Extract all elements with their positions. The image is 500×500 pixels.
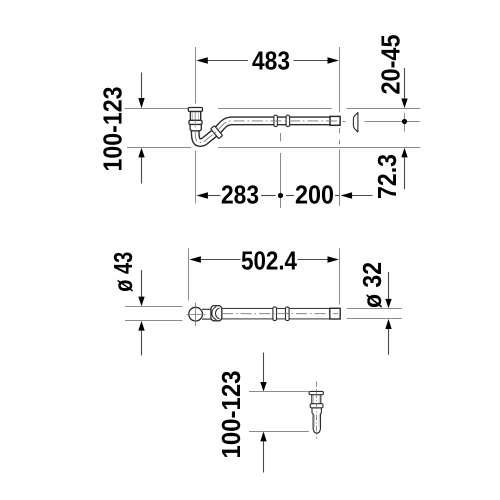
dim diameter 32 ticks — [347, 309, 402, 319]
trap pipe ring 1 — [274, 115, 278, 126]
label 20-45 — [376, 35, 406, 95]
svg-text:ø 43: ø 43 — [108, 252, 138, 292]
reference line top (wall level) — [218, 108, 332, 110]
reference line bottom — [218, 147, 421, 149]
wall flange (edge view) — [353, 113, 358, 132]
dim 100-123 (tailpiece) upper arrow — [260, 353, 266, 392]
label 72.3 — [372, 154, 402, 199]
dim 283/200 extension line middle — [280, 133, 282, 208]
dim 483 arrowhead left — [196, 57, 208, 63]
dim 200 outside arrow — [341, 192, 373, 198]
label 502.4 — [241, 245, 297, 275]
dim diameter 43 upper arrow — [138, 270, 144, 306]
dim diameter 43 lower arrow — [138, 321, 144, 355]
dim 483 arrowhead right — [328, 57, 340, 63]
dim 20-45 arrow — [401, 68, 407, 108]
ball neck — [202, 309, 213, 319]
dim 283/200 extension line right — [339, 140, 341, 206]
tailpiece flange — [309, 391, 323, 394]
dim diameter 32 upper arrow — [385, 272, 391, 308]
svg-text:ø 32: ø 32 — [357, 262, 387, 308]
dim 502.4 extension line left — [188, 248, 190, 300]
dim 283/200 junction dot — [278, 193, 283, 198]
svg-text:100-123: 100-123 — [216, 371, 246, 459]
tailpiece body — [312, 408, 321, 433]
dim 72.3 arrow — [401, 148, 407, 190]
trap inlet nut — [189, 120, 202, 124]
dim diameter 32 lower arrow — [385, 319, 391, 355]
tailpiece centerline — [316, 381, 318, 438]
dim 200 dimension line — [286, 195, 339, 197]
dim 100-123 (tailpiece) lower arrow — [260, 432, 266, 473]
pipe end sleeve — [330, 308, 340, 319]
ball joint — [189, 307, 203, 321]
trap union nut (diagonal) — [211, 126, 223, 139]
dim 502.4 dimension line — [201, 259, 329, 261]
pipe tube centerline — [222, 313, 338, 315]
trap inlet neck — [190, 112, 200, 121]
dim 502.4 arrowhead left — [189, 256, 201, 262]
svg-text:502.4: 502.4 — [241, 245, 297, 275]
svg-text:200: 200 — [295, 179, 334, 209]
trap inlet sleeve — [190, 125, 201, 131]
dim diameter 43 ticks — [125, 307, 183, 321]
dim 20-45 tick — [347, 108, 421, 110]
dim 502.4 arrowhead right — [328, 256, 340, 262]
dim 100-123 (tailpiece) ticks — [249, 392, 309, 432]
pipe tube ring 1 — [273, 307, 277, 321]
dim 502.4 extension line right — [339, 248, 341, 304]
label 483 — [252, 45, 290, 75]
tailpiece neck — [312, 395, 321, 404]
label diameter 32 — [357, 262, 387, 308]
outlet centerline stub — [343, 121, 346, 123]
svg-text:283: 283 — [221, 179, 259, 209]
svg-text:72.3: 72.3 — [372, 154, 402, 199]
svg-text:100-123: 100-123 — [97, 87, 127, 172]
trap pipe ring 2 — [286, 115, 290, 126]
trap pipe body (P-bend) — [195, 111, 339, 143]
label 200 — [295, 179, 334, 209]
label 100-123 (trap height) — [97, 87, 127, 172]
trap pipe centerline — [195, 112, 338, 143]
trap pipe end sleeve — [330, 116, 340, 125]
pipe tube — [220, 308, 340, 318]
dim 100-123 lower arrow — [138, 148, 144, 184]
pipe tube ring 2 — [286, 307, 290, 321]
outlet centerline cross — [365, 113, 420, 132]
dim 483 extension line left — [195, 47, 197, 104]
svg-text:483: 483 — [252, 45, 290, 75]
dim 100-123 upper arrow — [138, 73, 144, 109]
label 283 — [221, 179, 259, 209]
dim 283 arrowhead — [196, 192, 208, 198]
tailpiece collar — [310, 404, 323, 408]
dim 483 extension line right — [339, 47, 341, 133]
trap inlet flange — [188, 108, 202, 112]
svg-text:20-45: 20-45 — [376, 35, 406, 95]
label 100-123 (tailpiece) — [216, 371, 246, 459]
dim 283/200 extension line left — [195, 151, 197, 204]
dim 283 dimension line — [208, 195, 276, 197]
socket collar — [211, 306, 222, 321]
ball joint centerlines — [186, 303, 205, 326]
dim 483 dimension line — [207, 60, 329, 62]
dim 100-123 top tick — [125, 108, 196, 110]
dim 100-123 bottom tick — [127, 147, 191, 149]
label diameter 43 — [108, 252, 138, 292]
